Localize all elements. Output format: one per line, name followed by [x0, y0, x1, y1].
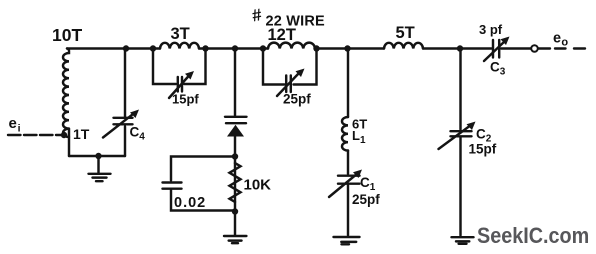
svg-text:1T: 1T	[73, 126, 90, 142]
svg-text:25pf: 25pf	[283, 92, 311, 107]
svg-text:10T: 10T	[52, 25, 82, 45]
svg-text:25pf: 25pf	[352, 192, 380, 207]
svg-text:15pf: 15pf	[469, 142, 497, 157]
svg-text:22 WIRE: 22 WIRE	[266, 14, 326, 30]
svg-text:3 pf: 3 pf	[479, 22, 503, 37]
svg-text:10K: 10K	[244, 177, 272, 194]
svg-text:SeekIC.com: SeekIC.com	[477, 224, 589, 248]
svg-text:3T: 3T	[171, 25, 190, 43]
svg-text:15pf: 15pf	[172, 92, 199, 107]
svg-text:0.02: 0.02	[174, 195, 206, 211]
svg-text:5T: 5T	[396, 24, 415, 42]
